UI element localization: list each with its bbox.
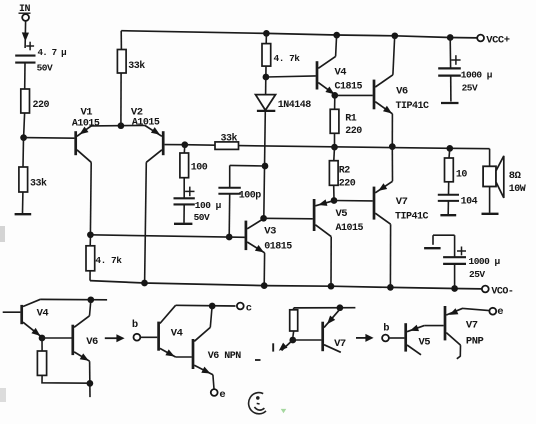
svg-text:R1: R1	[345, 113, 357, 124]
svg-text:1N4148: 1N4148	[278, 100, 312, 111]
svg-text:V2: V2	[131, 106, 143, 118]
svg-text:V4: V4	[37, 308, 49, 320]
svg-text:V5: V5	[336, 208, 348, 220]
svg-text:TIP41C: TIP41C	[395, 212, 429, 223]
svg-text:V4: V4	[335, 66, 347, 78]
svg-text:V7: V7	[396, 196, 408, 208]
svg-text:PNP: PNP	[466, 335, 484, 347]
svg-text:V6 NPN: V6 NPN	[208, 351, 242, 362]
svg-text:33k: 33k	[128, 60, 145, 72]
svg-text:A1015: A1015	[132, 118, 160, 129]
svg-text:e: e	[497, 306, 503, 318]
svg-text:10: 10	[456, 169, 468, 180]
svg-text:33k: 33k	[221, 132, 238, 144]
svg-text:25V: 25V	[469, 269, 485, 280]
svg-text:b: b	[383, 322, 389, 334]
svg-text:100p: 100p	[239, 191, 262, 202]
svg-text:1000 µ: 1000 µ	[469, 256, 501, 267]
svg-text:50V: 50V	[37, 63, 53, 74]
svg-text:e: e	[219, 389, 225, 401]
svg-text:c: c	[246, 302, 252, 314]
svg-text:R2: R2	[339, 165, 351, 176]
svg-text:V5: V5	[419, 337, 431, 349]
svg-text:V7: V7	[334, 338, 346, 350]
svg-text:220: 220	[33, 100, 50, 111]
svg-text:A1015: A1015	[336, 223, 364, 234]
svg-text:33k: 33k	[30, 178, 47, 190]
svg-text:8Ω: 8Ω	[509, 170, 522, 182]
svg-text:4. 7 µ: 4. 7 µ	[38, 47, 67, 58]
svg-text:100 µ: 100 µ	[195, 200, 222, 211]
svg-text:V3: V3	[264, 225, 276, 237]
svg-text:V7: V7	[466, 320, 478, 332]
svg-text:50V: 50V	[194, 212, 210, 223]
svg-text:4. 7k: 4. 7k	[95, 255, 122, 266]
svg-text:VCO-: VCO-	[491, 286, 513, 297]
svg-text:10W: 10W	[509, 184, 526, 195]
svg-text:V1: V1	[81, 106, 93, 118]
svg-text:b: b	[132, 319, 138, 331]
svg-text:220: 220	[339, 178, 356, 189]
svg-text:VCC+: VCC+	[486, 34, 509, 46]
svg-text:4. 7k: 4. 7k	[274, 53, 301, 64]
svg-text:100: 100	[191, 162, 208, 173]
svg-text:104: 104	[461, 197, 478, 208]
svg-text:V6: V6	[396, 86, 408, 98]
svg-text:01815: 01815	[264, 242, 292, 253]
svg-text:220: 220	[345, 126, 362, 137]
svg-text:TIP41C: TIP41C	[396, 101, 430, 112]
svg-text:A1015: A1015	[72, 118, 100, 129]
svg-text:V6: V6	[86, 336, 98, 348]
svg-text:V4: V4	[171, 328, 183, 340]
svg-text:C1815: C1815	[335, 82, 363, 93]
svg-text:1000 µ: 1000 µ	[461, 69, 493, 80]
svg-text:25V: 25V	[462, 82, 478, 93]
